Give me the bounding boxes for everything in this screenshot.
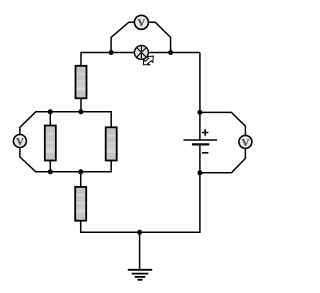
wire right parallel resistor top lead (110, 111, 112, 127)
svg-text:V: V (138, 17, 146, 29)
resistor R2 (left parallel) (45, 126, 56, 161)
wire ground lead (139, 232, 141, 269)
node F (bottom resistor top junction) (78, 169, 83, 174)
battery minus sign (202, 152, 208, 154)
resistor R3 (right parallel) (106, 127, 117, 160)
node G (battery top junction) (197, 110, 202, 115)
wire bottom resistor bottom lead (80, 221, 82, 233)
wire left parallel resistor top lead (49, 112, 51, 126)
wire parallel section bottom horizontal (35, 171, 111, 173)
wire voltmeter V3 bottom branch (200, 149, 246, 173)
wire top resistor lower lead (80, 98, 82, 112)
lamp L1 (134, 45, 148, 59)
svg-text:V: V (16, 136, 24, 148)
wire right vertical lower (battery bottom plate to bottom wire) (199, 145, 201, 233)
wire left parallel resistor bottom lead (49, 160, 51, 171)
wire right parallel resistor bottom lead (110, 160, 112, 172)
wire voltmeter V2 bottom branch (20, 148, 36, 172)
node B (V1 right junction) (168, 50, 173, 55)
resistor R4 (bottom) (75, 187, 86, 221)
ground symbol (128, 270, 152, 280)
node E (left resistor bottom junction) (48, 169, 53, 174)
wire top main horizontal (81, 52, 200, 54)
node I (ground junction) (137, 230, 142, 235)
wire parallel section top horizontal (35, 111, 111, 113)
battery B1 bottom plate (192, 143, 209, 145)
node A (V1 left junction) (109, 50, 114, 55)
wire top resistor upper lead (80, 52, 82, 66)
node D (top resistor bottom junction) (78, 109, 83, 114)
node H (battery bottom junction) (197, 170, 202, 175)
svg-text:V: V (242, 137, 250, 149)
voltmeter V3 (right) (239, 135, 252, 148)
wire voltmeter V1 right branch (149, 22, 171, 52)
voltmeter V1 (top) (134, 15, 148, 29)
voltmeter V2 (left) (13, 135, 26, 148)
mouse cursor (resize arrow) (143, 56, 153, 65)
wire voltmeter V1 left branch (111, 22, 134, 52)
wire voltmeter V3 top branch (200, 112, 246, 135)
wire voltmeter V2 top branch (20, 112, 36, 134)
battery B1 top plate (183, 139, 217, 141)
node C (left resistor top junction) (48, 109, 53, 114)
wire bottom resistor top lead (80, 172, 82, 187)
wire bottom main horizontal (81, 231, 201, 233)
resistor R1 (top) (76, 66, 87, 99)
wire right vertical upper (top wire to battery top plate) (199, 53, 201, 141)
battery plus sign (202, 129, 208, 135)
